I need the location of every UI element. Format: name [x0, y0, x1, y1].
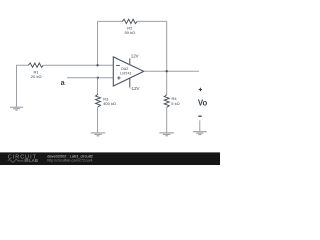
svg-text:20 kΩ: 20 kΩ — [31, 74, 42, 79]
svg-text:50 kΩ: 50 kΩ — [125, 30, 136, 35]
svg-text:LM741: LM741 — [120, 72, 131, 76]
wire: R2 left lead — [98, 20, 123, 22]
CircuitLab logo waveform — [8, 160, 24, 163]
output plus terminal marker — [199, 88, 202, 91]
svg-text:5 kΩ: 5 kΩ — [171, 101, 179, 106]
op-amp U1 OA2 LM741 triangle — [113, 57, 144, 86]
ground (left, under R1 input) — [10, 107, 23, 110]
svg-text:OA2: OA2 — [121, 67, 128, 71]
wire: left loop from ground up to R1 left terminal — [17, 65, 29, 106]
CircuitLab logo LAB block — [24, 159, 28, 162]
wire: R1 right lead to op-amp inverting input — [44, 64, 114, 66]
svg-text:Vo: Vo — [198, 99, 208, 108]
ground (under R4) — [159, 133, 174, 136]
wire: R4 bottom to ground — [166, 107, 168, 132]
wire: down from node a junction to R3 top — [97, 78, 99, 95]
output minus terminal marker — [198, 115, 201, 117]
junction: output node feedback tap — [166, 70, 168, 72]
svg-text:12V: 12V — [131, 53, 139, 58]
node a: input stub wire to non-inverting input — [67, 77, 113, 79]
svg-text:http://circuitlab.com/c72cuz4: http://circuitlab.com/c72cuz4 — [47, 158, 92, 162]
svg-text:LAB: LAB — [29, 158, 38, 163]
resistor R2 — [122, 19, 137, 23]
watermark bar — [0, 152, 220, 165]
power stub: negative supply pin — [129, 78, 131, 87]
op-amp inverting pin minus sign — [116, 64, 120, 66]
wire: feedback vertical from inverting node up to R2 — [97, 21, 99, 65]
resistor R1 — [28, 63, 43, 67]
op-amp non-inverting pin plus sign — [117, 76, 120, 79]
svg-text:a: a — [61, 78, 66, 87]
wire: op-amp output to Vo — [144, 70, 199, 72]
svg-text:-12V: -12V — [130, 86, 139, 91]
svg-text:400 kΩ: 400 kΩ — [103, 101, 116, 106]
wire: R2 right lead and corner down to output node — [137, 21, 167, 95]
power stub: positive supply pin — [129, 58, 131, 65]
junction: non-inverting node to R3 — [97, 77, 99, 79]
ground (under R3) — [91, 133, 106, 136]
wire: R3 bottom to ground — [97, 107, 99, 133]
ground (under Vo) — [193, 132, 207, 135]
resistor R4 — [164, 95, 169, 107]
wire: Vo reference ground stub — [199, 120, 201, 131]
junction: inverting input node — [96, 64, 98, 66]
resistor R3 — [96, 94, 101, 106]
